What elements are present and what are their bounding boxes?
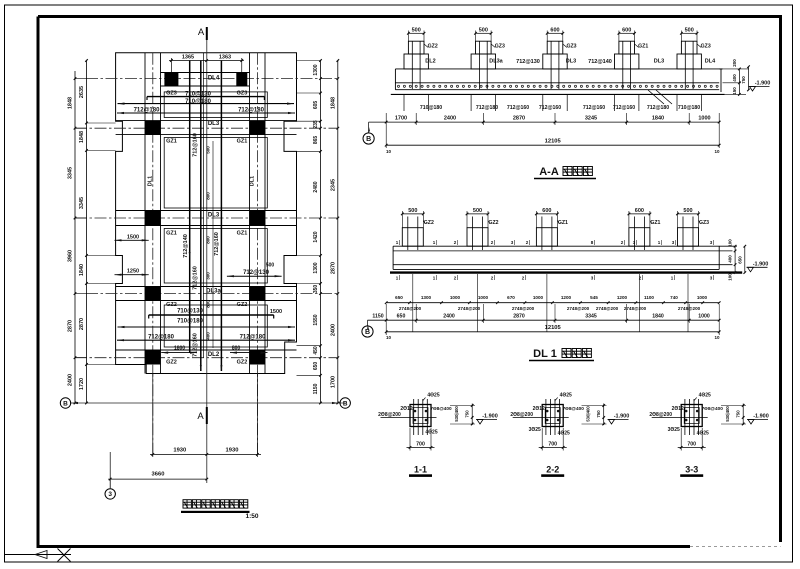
section A-A pedestal 2 — [471, 54, 495, 69]
svg-text:DL 1: DL 1 — [533, 348, 557, 360]
svg-text:7Θ8@400: 7Θ8@400 — [563, 406, 585, 411]
rebar arrow DL2 right — [230, 352, 268, 354]
section DL1 dimension chain 1 — [386, 302, 719, 304]
left chain extension lines — [87, 122, 116, 124]
grid line row 5 — [75, 357, 338, 359]
svg-text:800: 800 — [232, 345, 241, 351]
column GZ1 row3 left — [145, 211, 161, 226]
section A-A title underline — [534, 178, 596, 180]
svg-text:800: 800 — [205, 300, 210, 308]
beam row2 edge bottom — [116, 134, 297, 136]
svg-text:1848: 1848 — [79, 131, 85, 143]
svg-text:1930: 1930 — [226, 448, 239, 454]
svg-text:1300: 1300 — [313, 262, 319, 273]
svg-text:500: 500 — [683, 208, 692, 214]
svg-text:-1.900: -1.900 — [753, 414, 769, 420]
section A-A slab left edge — [394, 69, 396, 90]
dimension 1500 plan left — [115, 239, 149, 241]
svg-text:450: 450 — [313, 346, 319, 355]
svg-text:2Θ12: 2Θ12 — [533, 406, 545, 412]
section DL1 pedestal 5 — [678, 228, 699, 247]
svg-text:1300: 1300 — [313, 64, 319, 75]
beam DL4 edge top — [161, 72, 250, 74]
section DL1 title underline — [529, 360, 594, 362]
section A-A pedestal 4 — [615, 54, 639, 69]
svg-text:DL1: DL1 — [250, 176, 256, 186]
svg-text:1-1: 1-1 — [414, 464, 427, 474]
X axis label — [58, 549, 71, 562]
svg-text:3345: 3345 — [585, 313, 597, 319]
svg-text:4Θ25: 4Θ25 — [558, 431, 570, 437]
section DL1 right side small dims — [734, 246, 736, 272]
grid bubble B right — [340, 398, 350, 408]
svg-text:700: 700 — [548, 441, 557, 447]
rebar bar horizontal bottom 710@130 — [149, 314, 274, 316]
svg-text:1800: 1800 — [174, 345, 185, 351]
svg-text:4Θ25: 4Θ25 — [425, 430, 437, 436]
svg-text:10: 10 — [714, 149, 720, 154]
svg-text:600: 600 — [622, 28, 631, 34]
column GZ1 row3 right — [250, 211, 266, 226]
detail 2-2 dimension 700 — [541, 428, 543, 451]
svg-text:750: 750 — [736, 410, 741, 418]
svg-text:1848: 1848 — [330, 97, 336, 109]
svg-text:712@160: 712@160 — [193, 266, 199, 290]
section A-A level mark -1.900 — [750, 87, 756, 92]
detail 2-2 column section square — [542, 405, 563, 427]
svg-text:300: 300 — [205, 272, 210, 280]
svg-text:-1.900: -1.900 — [482, 414, 498, 420]
svg-text:DL3: DL3 — [654, 59, 664, 65]
svg-text:100: 100 — [728, 239, 733, 247]
svg-text:712@160: 712@160 — [583, 105, 605, 111]
svg-text:10: 10 — [386, 335, 392, 340]
svg-text:GZ2: GZ2 — [237, 302, 248, 308]
svg-text:DL2: DL2 — [425, 59, 435, 65]
section DL1 beam inner bottom line — [393, 264, 732, 266]
section DL1 pedestal 5 top dim 500 — [678, 213, 699, 215]
svg-text:2Θ8@200: 2Θ8@200 — [378, 412, 401, 418]
section DL1 pedestal 4 top dim 600 — [629, 213, 650, 215]
svg-text:2870: 2870 — [513, 313, 525, 319]
grid line row 4 — [86, 293, 338, 295]
plan bottom dimension 3660 — [108, 478, 207, 480]
svg-text:GZ3: GZ3 — [566, 44, 576, 50]
svg-text:B: B — [365, 329, 370, 336]
svg-text:750: 750 — [465, 410, 470, 418]
svg-text:712@160: 712@160 — [193, 333, 199, 357]
border dashed segment bottom right — [690, 546, 781, 548]
plan title underline — [181, 511, 250, 513]
svg-text:800: 800 — [205, 192, 210, 200]
section DL1 pedestal 2 top dim 500 — [467, 213, 488, 215]
section DL1 pedestal extension lines down — [412, 274, 414, 332]
section A-A overall dimension 12105 — [386, 144, 719, 146]
beam row2 edge top — [116, 120, 297, 122]
section DL1 beam top line — [393, 245, 737, 247]
svg-text:1000: 1000 — [698, 116, 710, 122]
svg-text:650: 650 — [313, 362, 319, 371]
detail 2-2 level mark — [609, 420, 615, 425]
svg-text:2345: 2345 — [330, 179, 336, 191]
svg-text:1000: 1000 — [697, 295, 708, 300]
column GZ1 row2 left — [145, 121, 161, 135]
svg-text:712@130: 712@130 — [243, 270, 270, 276]
grid line row 3 — [75, 217, 338, 219]
svg-text:GZ3: GZ3 — [495, 44, 505, 50]
svg-text:4Θ25: 4Θ25 — [697, 431, 709, 437]
rebar range arrow 712@130 mid-right — [227, 275, 282, 277]
grid line B horizontal — [70, 402, 340, 404]
dimension 1250 plan left — [115, 274, 149, 276]
svg-text:7Θ8@400: 7Θ8@400 — [702, 406, 724, 411]
svg-text:712@160: 712@160 — [193, 133, 199, 157]
grid line row 2 — [75, 127, 338, 129]
svg-text:1250: 1250 — [127, 269, 139, 275]
section A-A pedestal 3 top dim 600 — [547, 32, 563, 34]
column strip line right 2 — [264, 53, 266, 374]
svg-text:3-3: 3-3 — [685, 464, 698, 474]
svg-text:700: 700 — [416, 441, 425, 447]
svg-text:150: 150 — [732, 87, 737, 95]
section DL1 right edge — [718, 246, 720, 269]
beam row4 edge top — [116, 286, 297, 288]
section A-A right side small dims — [738, 69, 740, 95]
detail 2-2 mid axis line — [513, 417, 569, 419]
column strip line left 2 — [160, 53, 162, 374]
column GZ2 row5 left — [145, 350, 161, 365]
svg-text:1500: 1500 — [270, 309, 282, 315]
svg-text:1550: 1550 — [313, 314, 319, 325]
svg-text:712@180: 712@180 — [647, 105, 669, 111]
svg-text:2400: 2400 — [443, 313, 455, 319]
svg-text:12105: 12105 — [545, 139, 562, 145]
plan bottom dimension line 1930+1930 — [150, 453, 261, 455]
column axis line right vertical — [256, 53, 258, 455]
svg-text:712@140: 712@140 — [588, 59, 612, 65]
section mark A top tick — [206, 27, 208, 40]
svg-text:3660: 3660 — [152, 472, 165, 478]
svg-text:3245: 3245 — [585, 116, 597, 122]
svg-text:530|400: 530|400 — [725, 406, 730, 422]
svg-text:710@180: 710@180 — [177, 318, 204, 324]
svg-text:500: 500 — [205, 146, 210, 154]
small vertical dim line center — [212, 141, 214, 348]
beam row3 edge bottom — [116, 225, 297, 227]
section DL1 bed slab thick — [390, 271, 742, 273]
svg-text:1720: 1720 — [79, 378, 85, 390]
section A-A leader diagonals — [648, 90, 664, 104]
svg-text:2400: 2400 — [68, 374, 74, 386]
rebar range arrow 712@180 top — [117, 112, 295, 114]
rebar range arrow 712@180 bottom — [117, 339, 295, 341]
svg-text:712@180: 712@180 — [476, 105, 498, 111]
svg-text:2748@200: 2748@200 — [567, 306, 590, 311]
svg-text:400: 400 — [732, 74, 737, 82]
svg-text:1840: 1840 — [652, 116, 664, 122]
svg-text:500: 500 — [685, 28, 694, 34]
section DL1 pedestal 3 top dim 600 — [536, 213, 557, 215]
rebar line 712@140 vertical — [189, 61, 191, 353]
svg-text:750: 750 — [741, 76, 746, 84]
svg-text:1150: 1150 — [313, 383, 319, 394]
section DL1 left edge — [392, 246, 394, 269]
svg-text:350: 350 — [313, 285, 319, 294]
X axis arrow bottom left — [5, 554, 72, 556]
section A-A dimension chain — [386, 121, 719, 123]
right dimension chain inner line — [320, 61, 322, 404]
svg-text:530|400: 530|400 — [586, 406, 591, 422]
svg-text:650: 650 — [737, 256, 742, 264]
rebar range arrow 710@180 bottom — [118, 326, 296, 328]
svg-text:1100: 1100 — [644, 295, 654, 300]
svg-text:1000: 1000 — [450, 295, 461, 300]
svg-text:1840: 1840 — [652, 313, 664, 319]
section A-A pedestal 1 — [404, 54, 428, 69]
svg-text:GZ2: GZ2 — [237, 360, 248, 366]
left dimension chain outer line — [74, 71, 76, 403]
column GZ3 top-right — [236, 73, 247, 87]
left dimension chain inner line — [86, 61, 88, 404]
section DL1 level mark -1.900 — [748, 267, 754, 272]
svg-text:GZ3: GZ3 — [701, 44, 711, 50]
section A-A slab rebar band top — [395, 82, 719, 84]
svg-text:600: 600 — [542, 208, 551, 214]
svg-text:712@160: 712@160 — [539, 105, 561, 111]
svg-text:712@130: 712@130 — [516, 59, 540, 65]
svg-text:GZ1: GZ1 — [237, 231, 248, 237]
svg-text:GZ3: GZ3 — [237, 90, 248, 96]
svg-text:1200: 1200 — [561, 295, 572, 300]
svg-text:710@180: 710@180 — [185, 99, 212, 105]
svg-text:GZ2: GZ2 — [166, 302, 177, 308]
plan foundation outline — [116, 53, 297, 374]
svg-text:605: 605 — [313, 101, 319, 110]
svg-text:GZ1: GZ1 — [638, 44, 648, 50]
svg-text:200: 200 — [732, 59, 737, 67]
svg-text:530|400: 530|400 — [454, 406, 459, 422]
svg-text:DL3: DL3 — [208, 121, 220, 127]
right chain extension lines — [297, 60, 321, 62]
section A-A pedestal 5 top dim 500 — [681, 32, 697, 34]
svg-text:600: 600 — [635, 208, 644, 214]
svg-text:B: B — [63, 400, 68, 407]
svg-text:2-2: 2-2 — [546, 464, 559, 474]
svg-text:3960: 3960 — [68, 250, 74, 262]
beam row3 edge top — [116, 210, 297, 212]
svg-text:GZ1: GZ1 — [166, 231, 177, 237]
svg-text:1700: 1700 — [395, 116, 407, 122]
svg-text:1840: 1840 — [79, 264, 85, 276]
pit rectangle cell 4 — [164, 305, 267, 347]
section line A vertical — [206, 39, 208, 483]
svg-text:1300: 1300 — [421, 295, 432, 300]
svg-text:2Θ12: 2Θ12 — [400, 406, 412, 412]
rebar arrow DL2 left — [161, 352, 197, 354]
pit rectangle cell 2 — [164, 138, 267, 209]
section DL1 beam inner top line — [393, 250, 732, 252]
svg-text:DL3a: DL3a — [489, 59, 503, 65]
svg-text:400: 400 — [728, 255, 733, 263]
svg-text:DL4: DL4 — [208, 76, 220, 82]
svg-text:2748@200: 2748@200 — [458, 306, 481, 311]
svg-text:2635: 2635 — [79, 86, 85, 98]
svg-text:740: 740 — [670, 295, 678, 300]
svg-text:7Θ8@400: 7Θ8@400 — [430, 406, 452, 411]
svg-text:1848: 1848 — [68, 97, 74, 109]
beam row4 edge bottom — [116, 300, 297, 302]
svg-text:2870: 2870 — [330, 262, 336, 274]
detail 3-3 level mark — [748, 420, 754, 425]
svg-text:2400: 2400 — [444, 116, 456, 122]
column axis line left vertical — [152, 53, 154, 455]
svg-text:GZ2: GZ2 — [166, 360, 177, 366]
detail 2-2 level dims — [603, 404, 605, 426]
svg-text:3Θ25: 3Θ25 — [529, 427, 541, 433]
svg-text:10: 10 — [714, 335, 720, 340]
svg-text:DL2: DL2 — [208, 352, 220, 358]
svg-text:235: 235 — [313, 120, 319, 129]
section A-A slab top line — [395, 68, 722, 70]
svg-text:600: 600 — [550, 28, 559, 34]
svg-text:500: 500 — [408, 208, 417, 214]
section DL1 pedestal 1 top dim 500 — [402, 213, 423, 215]
svg-text:750: 750 — [596, 410, 601, 418]
svg-text:-1.900: -1.900 — [755, 81, 771, 87]
detail 1-1 level mark — [477, 420, 483, 425]
svg-text:712@140: 712@140 — [183, 234, 189, 258]
svg-text:2748@200: 2748@200 — [624, 306, 647, 311]
detail 2-2 rebar verticals — [545, 399, 547, 435]
grid line row 1 (through top columns) — [86, 78, 338, 80]
column strip line left 1 — [144, 53, 146, 374]
section DL1 overall dimension 12105 — [386, 331, 719, 333]
svg-text:DL3: DL3 — [208, 213, 220, 219]
svg-text:712@180: 712@180 — [238, 108, 265, 114]
svg-text:-1.900: -1.900 — [753, 262, 769, 268]
beam DL4 edge bottom — [161, 85, 250, 87]
svg-text:A: A — [197, 411, 204, 422]
svg-text:3345: 3345 — [79, 197, 85, 209]
svg-text:2870: 2870 — [513, 116, 525, 122]
rebar line 712@160 vertical left — [200, 61, 202, 372]
column GZ3 top-left — [164, 73, 178, 87]
svg-text:1700: 1700 — [330, 376, 336, 388]
svg-text:3345: 3345 — [68, 167, 74, 179]
section DL1 beam bottom line — [393, 268, 719, 270]
svg-text:1420: 1420 — [313, 231, 319, 242]
svg-text:2Θ8@200: 2Θ8@200 — [510, 412, 533, 418]
svg-text:GZ3: GZ3 — [166, 90, 177, 96]
svg-text:2Θ12: 2Θ12 — [672, 406, 684, 412]
svg-text:2748@200: 2748@200 — [512, 306, 535, 311]
svg-text:2748@200: 2748@200 — [399, 306, 422, 311]
section A-A pedestal 1 top dim 500 — [408, 32, 424, 34]
svg-text:712@180: 712@180 — [134, 108, 161, 114]
svg-text:500: 500 — [266, 263, 275, 269]
grid bubble B section A-A — [363, 133, 374, 144]
svg-text:800: 800 — [205, 236, 210, 244]
svg-text:1000: 1000 — [533, 295, 544, 300]
svg-text:2870: 2870 — [79, 318, 85, 330]
column strip line right 1 — [249, 53, 251, 374]
beam row5 edge top — [116, 349, 297, 351]
svg-text:712@180: 712@180 — [148, 335, 175, 341]
svg-text:2870: 2870 — [68, 320, 74, 332]
beam edge line center thin — [203, 53, 205, 358]
svg-text:400: 400 — [205, 332, 210, 340]
svg-text:10: 10 — [386, 149, 392, 154]
svg-text:12105: 12105 — [545, 325, 562, 331]
grid bubble B section DL1 — [362, 326, 373, 337]
svg-text:4Θ25: 4Θ25 — [699, 393, 711, 399]
column GZ2 row5 right — [250, 350, 266, 365]
svg-text:710@180: 710@180 — [420, 105, 442, 111]
svg-text:500: 500 — [473, 208, 482, 214]
section DL1 pedestal 1 — [402, 228, 423, 247]
svg-text:500: 500 — [412, 28, 421, 34]
detail 1-1 column section square — [410, 405, 431, 427]
svg-text:1:50: 1:50 — [245, 513, 258, 520]
svg-text:650: 650 — [397, 313, 406, 319]
grid bubble B left — [60, 398, 70, 408]
column GZ2 row4 left — [145, 287, 161, 301]
section A-A pedestal 3 — [543, 54, 567, 69]
svg-text:100: 100 — [728, 273, 733, 281]
section A-A below-slab extension lines — [403, 94, 405, 111]
svg-text:500: 500 — [479, 28, 488, 34]
svg-text:1150: 1150 — [372, 313, 383, 319]
svg-text:A: A — [198, 27, 205, 38]
grid bubble 3 — [109, 479, 111, 488]
section mark A bottom tick — [206, 407, 208, 424]
right dimension chain outer line — [337, 61, 339, 404]
detail 3-3 column section square — [681, 405, 702, 427]
svg-text:3Θ25: 3Θ25 — [668, 427, 680, 433]
svg-text:712@160: 712@160 — [507, 105, 529, 111]
column GZ2 row4 right — [250, 287, 266, 301]
svg-text:650: 650 — [395, 295, 403, 300]
svg-text:712@180: 712@180 — [240, 335, 267, 341]
section A-A slab bottom line — [395, 89, 719, 91]
svg-text:1500: 1500 — [127, 235, 139, 241]
section A-A pedestal 5 — [677, 54, 701, 69]
svg-text:GZ1: GZ1 — [166, 138, 177, 144]
svg-text:865: 865 — [313, 136, 319, 145]
svg-text:710@130: 710@130 — [177, 308, 204, 314]
svg-text:710@180: 710@180 — [678, 105, 700, 111]
dimension line 1365-1363 top — [169, 60, 244, 62]
svg-text:DL1: DL1 — [148, 176, 154, 186]
svg-text:A-A: A-A — [539, 166, 559, 178]
svg-text:1930: 1930 — [173, 448, 186, 454]
svg-text:1363: 1363 — [219, 55, 231, 61]
svg-text:1000: 1000 — [698, 313, 710, 319]
section A-A pedestal 4 top dim 600 — [619, 32, 635, 34]
svg-text:3: 3 — [108, 491, 112, 498]
svg-text:2Θ8@200: 2Θ8@200 — [649, 412, 672, 418]
section DL1 pedestal 2 — [467, 228, 488, 247]
svg-text:DL4: DL4 — [705, 59, 716, 65]
detail 1-1 mid axis line — [381, 417, 437, 419]
svg-text:2748@200: 2748@200 — [596, 306, 619, 311]
section DL1 pedestal 3 — [536, 228, 557, 247]
detail 3-3 dimension 700 — [680, 428, 682, 451]
svg-text:670: 670 — [507, 295, 515, 300]
pit rectangle cell 3 — [164, 229, 267, 284]
rebar bar horizontal top 710@130 — [147, 96, 264, 98]
pit rectangle cell 1 — [164, 92, 267, 118]
